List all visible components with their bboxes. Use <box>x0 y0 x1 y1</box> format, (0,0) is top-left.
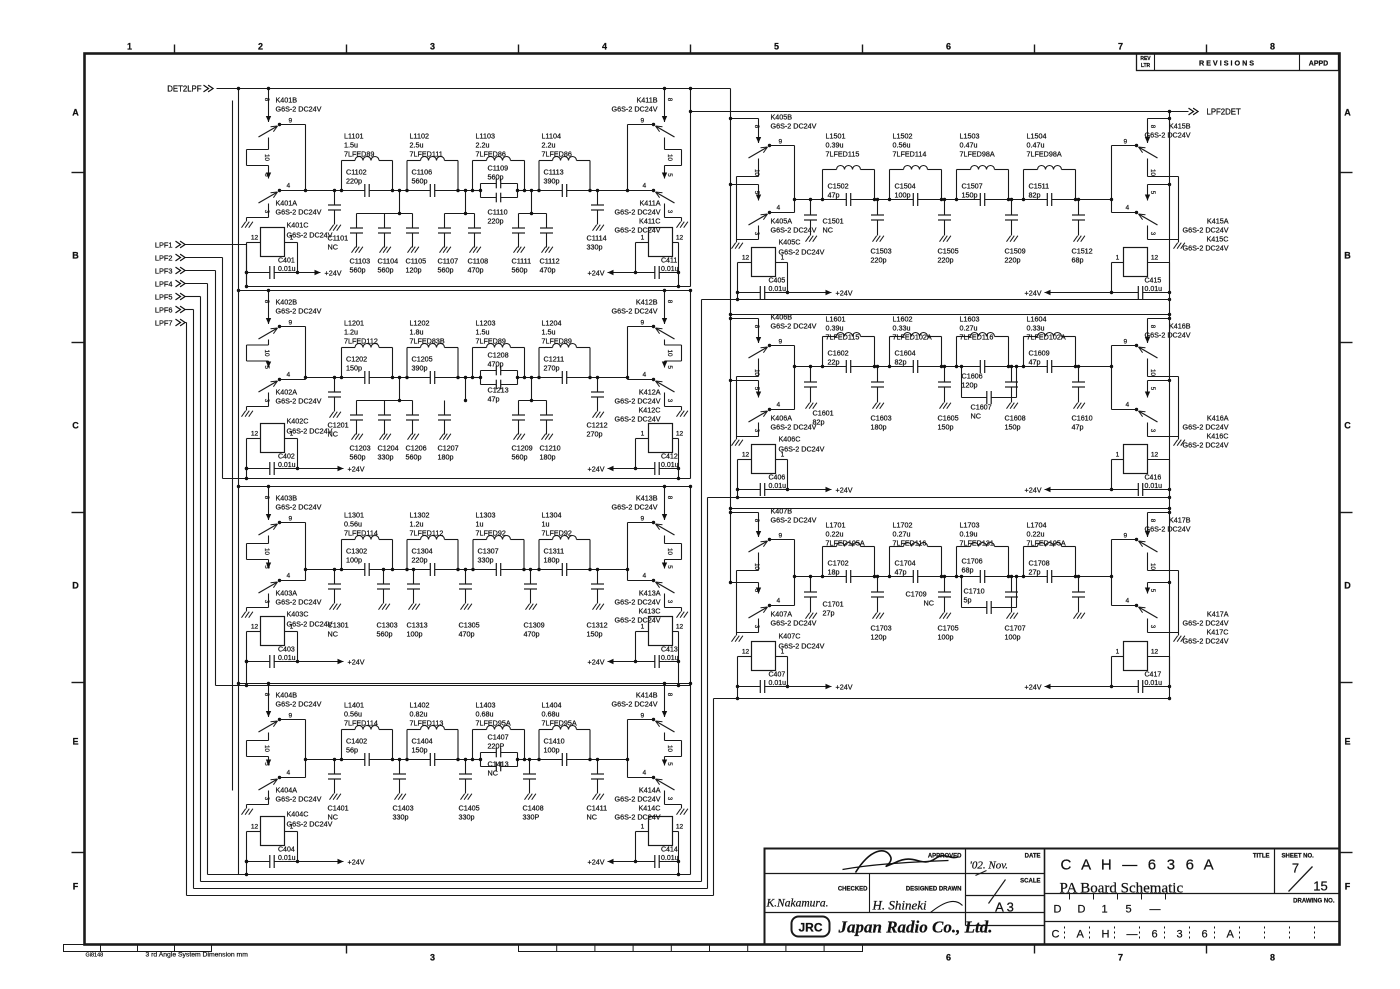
ground <box>732 440 736 446</box>
capacitor C401 <box>247 272 298 274</box>
relay coil K411C <box>649 228 673 257</box>
svg-text:G6S-2 DC24V: G6S-2 DC24V <box>1145 525 1191 534</box>
svg-text:C1601: C1601 <box>813 409 834 418</box>
top bus wire <box>731 314 1170 316</box>
svg-text:6: 6 <box>1152 929 1158 941</box>
svg-text:4: 4 <box>777 598 781 605</box>
svg-text:JRC: JRC <box>798 921 822 935</box>
wire rail to bus <box>678 273 680 287</box>
svg-text:L1601: L1601 <box>826 315 846 324</box>
inductor L1104 <box>538 161 540 191</box>
ground <box>242 809 246 815</box>
svg-text:560p: 560p <box>412 177 428 186</box>
svg-text:C1112: C1112 <box>540 257 560 266</box>
svg-text:390p: 390p <box>412 364 428 373</box>
svg-text:2.2u: 2.2u <box>542 141 556 150</box>
svg-text:C1202: C1202 <box>346 355 367 364</box>
relay K417A <box>1148 582 1170 584</box>
svg-text:DESIGNED DRAWN: DESIGNED DRAWN <box>906 887 962 893</box>
inductor L1604 <box>1023 337 1025 367</box>
svg-text:3: 3 <box>1149 429 1156 433</box>
svg-text:LPF5: LPF5 <box>155 293 173 302</box>
capacitor C1701 <box>810 577 812 593</box>
relay coil K401C <box>261 228 285 257</box>
svg-text:7LFED111: 7LFED111 <box>410 150 443 159</box>
svg-text:7LFED102A: 7LFED102A <box>893 333 932 342</box>
svg-text:C1609: C1609 <box>1029 349 1050 358</box>
svg-text:3: 3 <box>753 625 760 629</box>
relay K406B <box>731 318 759 320</box>
svg-text:100p: 100p <box>895 191 911 200</box>
wire main signal line <box>306 759 628 761</box>
svg-text:C415: C415 <box>1145 278 1162 285</box>
svg-text:330p: 330p <box>459 813 475 822</box>
svg-text:270p: 270p <box>587 430 603 439</box>
svg-text:G6S-2 DC24V: G6S-2 DC24V <box>1183 619 1229 628</box>
wire rail to bus <box>678 862 680 875</box>
svg-text:C1201: C1201 <box>328 421 349 430</box>
wire pin10 jog <box>664 340 666 346</box>
wire rail to bus <box>246 862 248 875</box>
svg-text:470p: 470p <box>459 630 475 639</box>
svg-text:G6S-2 DC24V: G6S-2 DC24V <box>779 445 825 454</box>
wire pin3 to ground <box>268 594 270 608</box>
svg-text:0.01u: 0.01u <box>1145 680 1163 687</box>
top bus wire <box>239 290 691 292</box>
svg-text:G6S-2 DC24V: G6S-2 DC24V <box>1183 441 1229 450</box>
svg-text:C1107: C1107 <box>438 257 459 266</box>
ground <box>873 236 877 242</box>
svg-text:G6S-2 DC24V: G6S-2 DC24V <box>1183 226 1229 235</box>
svg-text:1: 1 <box>1116 255 1120 262</box>
svg-text:9: 9 <box>641 118 645 125</box>
svg-text:7LFED102A: 7LFED102A <box>1027 333 1066 342</box>
svg-text:C406: C406 <box>769 475 786 482</box>
svg-text:1u: 1u <box>476 520 484 529</box>
svg-text:K404C: K404C <box>287 810 309 819</box>
wire main signal line <box>306 190 628 192</box>
right trunk wire <box>1169 112 1171 699</box>
wire rail to bus <box>246 273 248 287</box>
svg-text:9: 9 <box>779 339 783 346</box>
svg-text:0.56u: 0.56u <box>344 710 362 719</box>
svg-text:560p: 560p <box>378 266 394 275</box>
ground <box>461 794 465 800</box>
svg-text:220p: 220p <box>488 217 504 226</box>
capacitor C1507 <box>980 198 984 201</box>
svg-text:C1209: C1209 <box>512 444 533 453</box>
bottom fold ruler left <box>64 945 212 952</box>
svg-text:B: B <box>1344 251 1351 261</box>
ground <box>677 222 681 228</box>
svg-text:NC: NC <box>328 630 338 639</box>
capacitor C1107 <box>444 214 446 229</box>
ground <box>542 434 546 440</box>
capacitor C1114 <box>597 191 599 206</box>
svg-text:G6S-2 DC24V: G6S-2 DC24V <box>615 415 661 424</box>
capacitor C1205 <box>430 376 434 379</box>
ground <box>593 412 597 418</box>
svg-text:G6S-2 DC24V: G6S-2 DC24V <box>1183 423 1229 432</box>
svg-text:8: 8 <box>1270 953 1275 963</box>
svg-text:C1404: C1404 <box>412 737 433 746</box>
svg-text:7LFED92: 7LFED92 <box>542 529 572 538</box>
svg-text:47p: 47p <box>1072 423 1084 432</box>
svg-text:12: 12 <box>1151 649 1159 656</box>
svg-text:12: 12 <box>1151 255 1159 262</box>
ground <box>732 636 736 642</box>
inductor L1302 <box>406 540 408 570</box>
svg-text:1: 1 <box>781 452 785 459</box>
svg-text:12: 12 <box>251 624 259 631</box>
svg-text:C1507: C1507 <box>962 182 983 191</box>
ground <box>352 247 356 253</box>
capacitor C1604 <box>913 365 917 368</box>
svg-text:C1603: C1603 <box>871 414 892 423</box>
svg-text:K402B: K402B <box>276 298 298 307</box>
capacitor C1706 <box>980 575 984 578</box>
svg-text:DRAWING NO.: DRAWING NO. <box>1293 899 1335 905</box>
ground <box>242 612 246 618</box>
relay K415A <box>1148 184 1170 186</box>
capacitor C1710 <box>961 577 963 608</box>
wire LPF1 <box>186 244 247 246</box>
svg-text:NC: NC <box>328 813 338 822</box>
svg-text:C1104: C1104 <box>378 257 399 266</box>
ground <box>1074 236 1078 242</box>
+24V supply arrow <box>608 272 636 274</box>
wire pin9 to main <box>280 124 306 126</box>
wire main signal line <box>306 569 628 571</box>
wire pin10 jog <box>268 340 270 346</box>
relay K403A <box>268 560 270 569</box>
inductor L1503 <box>956 170 958 200</box>
svg-text:5: 5 <box>666 762 673 766</box>
left boundary wire <box>237 682 240 685</box>
svg-text:330P: 330P <box>523 813 540 822</box>
capacitor C1106 <box>430 189 434 192</box>
capacitor C1213 <box>481 384 518 386</box>
relay K407A <box>731 582 759 584</box>
svg-text:G6S-2 DC24V: G6S-2 DC24V <box>276 503 322 512</box>
svg-text:C1710: C1710 <box>964 587 985 596</box>
capacitor C1601 <box>810 367 812 383</box>
svg-text:L1703: L1703 <box>960 521 980 530</box>
relay coil K415C <box>1124 248 1148 277</box>
approved signature <box>856 851 959 873</box>
svg-text:C1606: C1606 <box>962 372 983 381</box>
right boundary wire <box>690 487 692 686</box>
svg-text:10: 10 <box>1149 369 1156 376</box>
svg-text:C1301: C1301 <box>328 621 349 630</box>
svg-text:C1302: C1302 <box>346 547 367 556</box>
svg-text:10: 10 <box>263 548 270 555</box>
ground <box>408 434 412 440</box>
svg-text:L1502: L1502 <box>893 132 913 141</box>
svg-text:C405: C405 <box>769 278 786 285</box>
wire shunt rail <box>531 191 533 214</box>
svg-text:1: 1 <box>641 235 645 242</box>
svg-text:C1501: C1501 <box>823 217 844 226</box>
svg-text:7LFED89: 7LFED89 <box>542 337 572 346</box>
inductor L1702 <box>889 547 891 577</box>
svg-text:G6S-2 DC24V: G6S-2 DC24V <box>276 795 322 804</box>
relay K404A <box>268 757 270 766</box>
svg-text:G6S-2 DC24V: G6S-2 DC24V <box>1145 331 1191 340</box>
svg-text:G6S-2 DC24V: G6S-2 DC24V <box>612 503 658 512</box>
svg-text:470p: 470p <box>468 266 484 275</box>
svg-text:C1401: C1401 <box>328 804 349 813</box>
svg-text:120p: 120p <box>406 266 422 275</box>
svg-text:1.5u: 1.5u <box>344 141 358 150</box>
svg-text:L1503: L1503 <box>960 132 980 141</box>
capacitor C1303 <box>383 570 385 585</box>
svg-text:15: 15 <box>1313 879 1327 894</box>
svg-text:'02. Nov.: '02. Nov. <box>970 860 1009 872</box>
relay K407B <box>731 512 759 514</box>
svg-text:8: 8 <box>666 496 673 500</box>
capacitor C1407 <box>481 752 518 754</box>
svg-text:L1501: L1501 <box>826 132 846 141</box>
ground <box>1007 403 1011 409</box>
svg-text:150p: 150p <box>346 364 362 373</box>
svg-text:8: 8 <box>1149 325 1156 329</box>
JRC logo <box>792 917 830 937</box>
svg-text:C1705: C1705 <box>938 624 959 633</box>
wire coil to rail <box>738 656 752 658</box>
svg-text:LTR: LTR <box>1141 63 1151 69</box>
ground <box>806 236 810 242</box>
svg-text:0.01u: 0.01u <box>278 655 296 662</box>
capacitor C1105 <box>412 214 414 229</box>
svg-text:C1312: C1312 <box>587 621 608 630</box>
capacitor C1311 <box>562 568 566 571</box>
relay coil K416C <box>1124 445 1148 474</box>
ground <box>593 225 597 231</box>
svg-text:3: 3 <box>753 232 760 236</box>
ground <box>461 604 465 610</box>
svg-text:8: 8 <box>1270 42 1275 52</box>
ground <box>677 612 681 618</box>
svg-text:LPF7: LPF7 <box>155 319 173 328</box>
wire pin10 jog <box>664 138 666 150</box>
+24V supply arrow <box>298 272 321 274</box>
inductor L1402 <box>406 730 408 760</box>
+24V supply arrow <box>298 468 344 470</box>
inductor L1401 <box>341 730 343 760</box>
wire LPF4 <box>186 283 208 285</box>
wire coil to rail <box>636 438 649 440</box>
capacitor C1408 <box>529 760 531 775</box>
right boundary wire <box>690 684 692 875</box>
svg-text:7LFED116: 7LFED116 <box>960 333 994 342</box>
capacitor C414 <box>636 861 679 863</box>
svg-text:220P: 220P <box>488 742 505 751</box>
svg-text:C1512: C1512 <box>1072 247 1093 256</box>
svg-text:10: 10 <box>666 745 673 752</box>
ground <box>732 243 736 249</box>
svg-text:C1405: C1405 <box>459 804 480 813</box>
svg-text:0.01u: 0.01u <box>278 266 296 273</box>
svg-text:150p: 150p <box>962 191 978 200</box>
svg-text:12: 12 <box>1151 452 1159 459</box>
capacitor C1305 <box>465 570 467 585</box>
auxiliary trunk wire <box>232 101 234 791</box>
svg-text:LPF2: LPF2 <box>155 254 173 263</box>
title block <box>765 849 1340 945</box>
svg-text:L1402: L1402 <box>410 701 430 710</box>
svg-text:5: 5 <box>774 42 779 52</box>
svg-text:C1503: C1503 <box>871 247 892 256</box>
inductor L1303 <box>472 540 474 570</box>
svg-text:1.5u: 1.5u <box>476 328 490 337</box>
wire DET trunk to right column <box>730 89 732 583</box>
capacitor C1209 <box>518 401 520 416</box>
wire pin9 riser <box>770 539 795 541</box>
capacitor C1512 <box>1078 200 1080 216</box>
wire LPF5 <box>186 296 201 298</box>
svg-text:9: 9 <box>289 118 293 125</box>
ground <box>470 247 474 253</box>
svg-text:C1113: C1113 <box>544 168 564 177</box>
svg-text:L1604: L1604 <box>1027 315 1047 324</box>
svg-text:L1303: L1303 <box>476 511 496 520</box>
inductor L1101 <box>341 161 343 191</box>
capacitor C411 <box>636 272 679 274</box>
svg-text:6: 6 <box>946 953 951 963</box>
top bus wire <box>731 508 1170 510</box>
svg-text:7LFED112: 7LFED112 <box>344 337 378 346</box>
svg-text:5: 5 <box>1126 904 1132 916</box>
relay coil K403C <box>261 617 285 646</box>
capacitor C403 <box>247 661 298 663</box>
relay K401B <box>268 89 270 123</box>
svg-text:C1305: C1305 <box>459 621 480 630</box>
wire pin10 <box>758 553 760 571</box>
svg-text:L1204: L1204 <box>542 319 562 328</box>
left boundary wire <box>237 289 240 292</box>
inductor L1201 <box>341 348 343 378</box>
bottom bus wire <box>223 478 691 480</box>
svg-text:G6S-2 DC24V: G6S-2 DC24V <box>276 307 322 316</box>
relay coil K413C <box>649 617 673 646</box>
wire pin9 riser <box>1112 145 1137 147</box>
svg-text:C1408: C1408 <box>523 804 544 813</box>
svg-text:8: 8 <box>753 125 760 129</box>
svg-text:560p: 560p <box>512 453 528 462</box>
+24V supply arrow <box>298 861 344 863</box>
svg-text:C1607: C1607 <box>971 403 992 412</box>
inductor L1701 <box>822 547 824 577</box>
svg-text:K404A: K404A <box>276 786 298 795</box>
capacitor C1104 <box>384 214 386 229</box>
svg-text:C1504: C1504 <box>895 182 916 191</box>
svg-text:7LFED114: 7LFED114 <box>344 529 378 538</box>
svg-text:C1205: C1205 <box>412 355 433 364</box>
svg-text:0.47u: 0.47u <box>1027 141 1045 150</box>
relay K406A <box>731 380 759 382</box>
svg-text:560p: 560p <box>377 630 393 639</box>
svg-text:K412C: K412C <box>639 406 661 415</box>
svg-text:G6S-2 DC24V: G6S-2 DC24V <box>612 307 658 316</box>
svg-text:5: 5 <box>1149 589 1156 593</box>
svg-text:G6S-2 DC24V: G6S-2 DC24V <box>287 820 333 829</box>
svg-text:5: 5 <box>1149 387 1156 391</box>
ground <box>1074 613 1078 619</box>
svg-text:4: 4 <box>643 770 647 777</box>
node LPF2DET <box>691 111 1189 113</box>
svg-text:C1708: C1708 <box>1029 559 1050 568</box>
capacitor C416 <box>1112 489 1170 491</box>
svg-text:100p: 100p <box>544 746 560 755</box>
ground <box>677 411 681 417</box>
inductor L1703 <box>956 547 958 577</box>
svg-text:9: 9 <box>289 713 293 720</box>
relay K403B <box>268 487 270 521</box>
svg-text:1: 1 <box>641 431 645 438</box>
svg-text:L1304: L1304 <box>542 511 562 520</box>
svg-text:0.68u: 0.68u <box>476 710 494 719</box>
svg-text:7: 7 <box>1118 42 1123 52</box>
svg-text:D: D <box>1054 904 1062 916</box>
svg-text:K413C: K413C <box>639 607 661 616</box>
capacitor C1307 <box>496 568 500 571</box>
inductor L1403 <box>472 730 474 760</box>
svg-text:C1203: C1203 <box>350 444 371 453</box>
svg-text:E: E <box>72 737 78 747</box>
ground <box>330 794 334 800</box>
svg-text:5: 5 <box>753 191 760 195</box>
capacitor C1702 <box>846 575 850 578</box>
svg-text:K403C: K403C <box>287 610 309 619</box>
svg-text:+24V: +24V <box>836 289 853 298</box>
wire coil to rail <box>247 631 261 633</box>
svg-text:R E V I S I O N S: R E V I S I O N S <box>1199 59 1254 68</box>
svg-text:0.01u: 0.01u <box>661 266 679 273</box>
capacitor C1703 <box>877 577 879 593</box>
svg-text:+24V: +24V <box>348 858 365 867</box>
svg-text:C1207: C1207 <box>438 444 459 453</box>
wire pin9 to main <box>280 522 306 524</box>
wire pin3 to ground <box>664 594 666 608</box>
wire pin3 <box>758 619 760 633</box>
svg-text:L1603: L1603 <box>960 315 980 324</box>
svg-text:L1504: L1504 <box>1027 132 1047 141</box>
svg-text:7LFED86: 7LFED86 <box>542 150 572 159</box>
svg-text:7LFED86: 7LFED86 <box>476 150 506 159</box>
svg-text:K411B: K411B <box>636 96 657 105</box>
svg-text:C1511: C1511 <box>1029 182 1050 191</box>
wire pin9 to main <box>628 326 654 328</box>
svg-text:150p: 150p <box>1005 423 1021 432</box>
svg-text:C1604: C1604 <box>895 349 916 358</box>
svg-text:3: 3 <box>753 429 760 433</box>
svg-text:10: 10 <box>263 154 270 161</box>
svg-text:C1102: C1102 <box>346 168 367 177</box>
svg-text:G6S-2 DC24V: G6S-2 DC24V <box>615 226 661 235</box>
svg-text:5: 5 <box>753 589 760 593</box>
wire coil to rail <box>1112 459 1124 461</box>
ground <box>330 604 334 610</box>
svg-text:470p: 470p <box>524 630 540 639</box>
svg-text:K415A: K415A <box>1207 217 1229 226</box>
svg-text:K407C: K407C <box>779 632 801 641</box>
svg-text:390p: 390p <box>544 177 560 186</box>
wire main signal line <box>306 377 628 379</box>
ground <box>677 809 681 815</box>
svg-text:100p: 100p <box>1005 633 1021 642</box>
svg-text:150p: 150p <box>938 423 954 432</box>
